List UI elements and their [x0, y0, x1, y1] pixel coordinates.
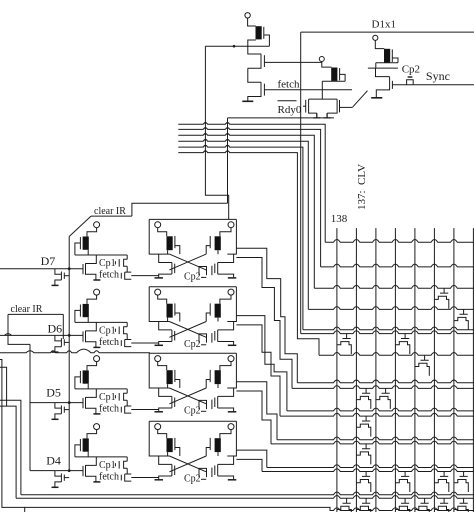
wire [158, 228, 167, 237]
power VCC circle chain3 [373, 35, 378, 40]
gate latch left [174, 438, 176, 450]
transistor Cp2 pass gate [211, 400, 213, 410]
svg-text:Cp1: Cp1 [99, 460, 116, 471]
ground latch left [155, 344, 164, 346]
wire cross X [169, 456, 206, 472]
wire dash [201, 478, 206, 480]
depletion load latch left [167, 438, 173, 452]
wire [159, 408, 172, 411]
wire [159, 476, 172, 479]
wire source [55, 414, 62, 419]
wire latch left side [149, 421, 169, 456]
power VCC circle latch right [228, 222, 234, 228]
wire [87, 430, 97, 439]
wire gate-source loop [264, 35, 270, 46]
transistor latch lower-left channel [171, 263, 173, 275]
wire decode row 2 [321, 264, 474, 267]
wire decode row 8 [297, 380, 474, 383]
wire bottom feed w2 [0, 406, 16, 498]
transistor decode Q3 [337, 334, 351, 355]
wire latch right side [218, 353, 236, 388]
pulldown transistor gate [63, 273, 65, 279]
wire source [55, 482, 62, 487]
wire source [86, 274, 96, 280]
wire bus line 6 [178, 151, 319, 355]
svg-text:fetch: fetch [99, 337, 119, 348]
pass transistor box Rdy0 top [309, 98, 338, 100]
transistor T1 channel [248, 54, 261, 69]
svg-text:D6: D6 [48, 321, 63, 335]
ground pulldown [52, 486, 59, 488]
gate bar right of Rdy0 pass [339, 100, 341, 112]
svg-text:Cp1: Cp1 [99, 325, 116, 336]
ground latch left [155, 411, 164, 413]
wire decode column 7 [453, 228, 455, 512]
transistor Cp2 pass channel [199, 267, 207, 276]
wire gate lead [64, 477, 69, 479]
transistor decode Q1 [434, 288, 448, 309]
wire source of load1 [248, 40, 261, 54]
wire decode row 12 [277, 437, 474, 440]
svg-text:Cp1: Cp1 [99, 392, 116, 403]
transistor decode Q4 [395, 334, 409, 355]
node D4 wire [30, 470, 83, 472]
wire [159, 274, 172, 277]
wire source [86, 476, 96, 482]
svg-text:fetch: fetch [99, 270, 119, 281]
depletion load latch right [215, 438, 221, 452]
depletion load latch right [215, 370, 221, 384]
transistor Sync channel [376, 77, 389, 98]
wire [126, 457, 128, 461]
wire fetch line [264, 89, 352, 91]
pass fetch gate [120, 407, 122, 413]
wire [375, 41, 384, 49]
wire D6 hop [5, 334, 12, 336]
power VCC circle latch left [155, 424, 161, 430]
switch diagonal [353, 91, 368, 107]
ground latch right [228, 411, 237, 413]
wire gate loop right [206, 380, 210, 389]
ground cell [93, 413, 100, 415]
wire gate loop [75, 243, 81, 255]
depletion load latch right [215, 304, 221, 318]
power VCC circle latch left [155, 222, 161, 228]
wire decode row 6 [301, 331, 474, 334]
wire source [55, 280, 62, 285]
pass Cp1 gate [118, 327, 120, 335]
junction [68, 401, 71, 404]
wire clearIR feed down [227, 118, 229, 203]
wire cross X [169, 322, 206, 338]
svg-text:D1x1: D1x1 [372, 19, 396, 31]
pulldown transistor channel [60, 405, 62, 414]
wire [159, 254, 172, 262]
transistor latch lower-right channel [217, 330, 219, 342]
driver transistor gate [82, 331, 84, 341]
wire drain [86, 255, 97, 264]
svg-text:Sync: Sync [426, 69, 450, 83]
gate latch right [209, 370, 211, 382]
depletion load latch left [167, 304, 173, 318]
wire diagonal to clear IR [69, 216, 91, 236]
wire bus line 2 [178, 128, 320, 267]
svg-text:fetch: fetch [99, 403, 119, 414]
wire [368, 63, 398, 68]
wire to latch [131, 409, 158, 411]
depletion load cell [83, 237, 89, 250]
wire decode column 5 [414, 228, 416, 512]
wire drain [86, 322, 97, 331]
pass Cp1 channel [124, 393, 128, 400]
gate latch left [174, 236, 176, 248]
transistor decode Q15 [356, 498, 370, 512]
transistor latch lower-right channel [217, 464, 219, 476]
wire [126, 322, 128, 326]
transistor decode Q8 [356, 416, 370, 437]
junction [68, 267, 71, 270]
wire latch output staircase 4 [236, 325, 280, 416]
driver transistor channel [85, 331, 87, 343]
svg-text:Cp2: Cp2 [184, 405, 201, 416]
wire [218, 408, 234, 411]
transistor latch lower-right gate [214, 398, 216, 408]
transistor decode Q19 [454, 498, 468, 512]
pass Cp1 channel [124, 461, 128, 468]
wire clear IR cell1 [91, 215, 132, 217]
pass Cp1 gate [118, 393, 120, 401]
power VCC circle chain1 [245, 13, 250, 18]
wire decode column 8 [472, 228, 474, 512]
gate of cell load [79, 439, 81, 451]
pulldown transistor drain [55, 403, 62, 409]
wire D1x1 feed down [300, 32, 302, 334]
wire gate loop [75, 310, 81, 322]
latch box top [149, 218, 236, 220]
svg-text:137: CLV: 137: CLV [356, 164, 368, 210]
wire [158, 362, 167, 371]
wire [218, 476, 234, 479]
gate latch left [174, 370, 176, 382]
svg-text:D7: D7 [41, 254, 56, 268]
driver transistor gate [82, 264, 84, 274]
overbar dash [408, 76, 413, 78]
svg-text:fetch: fetch [99, 471, 119, 482]
ground chain3 [371, 97, 382, 99]
wire decode column 1 [336, 228, 338, 512]
wire decode column 2 [355, 228, 357, 512]
depletion load latch left [167, 370, 173, 384]
wire [218, 322, 234, 330]
transistor T2 channel [248, 82, 261, 101]
wire to latch [131, 342, 158, 344]
transistor decode Q13 [356, 472, 370, 493]
pulldown transistor channel [60, 272, 62, 281]
transistor Cp2 pass gate [211, 468, 213, 478]
junction [68, 334, 71, 337]
wire decode row 16 [16, 496, 474, 499]
wire gate loop [75, 445, 81, 457]
wire latch output staircase 6 [236, 391, 271, 444]
depletion load cell [83, 438, 89, 451]
wire gate loop right [206, 313, 210, 322]
node D5 wire [30, 402, 83, 404]
pulldown transistor drain [55, 269, 62, 275]
transistor decode Q6 [356, 388, 370, 409]
wire [220, 430, 231, 439]
wire [126, 468, 128, 474]
wire [126, 334, 128, 340]
transistor latch lower-left gate [174, 466, 176, 476]
transistor decode Q10 [395, 472, 409, 493]
transistor Cp2 pass channel [199, 468, 207, 477]
svg-text:fetch: fetch [278, 79, 300, 91]
wire decode row 13 [271, 441, 474, 444]
wire [218, 388, 234, 396]
wire drain [86, 457, 97, 466]
pulldown transistor drain [55, 335, 62, 341]
wire source of load2 [322, 81, 345, 99]
wire bottom feed w3 [0, 400, 21, 495]
node D6 wire [0, 334, 83, 336]
wire gate loop left [175, 448, 180, 457]
transistor decode Q16 [395, 498, 409, 512]
wire bus line 5 [178, 145, 303, 329]
wire [126, 255, 128, 259]
wire bus line 3 [178, 134, 314, 289]
pulldown transistor drain [55, 471, 62, 477]
svg-text:clear IR: clear IR [11, 304, 43, 315]
wire [159, 342, 172, 345]
pass fetch gate [120, 475, 122, 481]
transistor decode Q18 [434, 498, 448, 512]
gate of cell load [79, 305, 81, 317]
junction [205, 127, 207, 129]
wire gate-source loop [340, 74, 346, 81]
wire [220, 228, 231, 237]
wire gate lead [64, 275, 69, 277]
power VCC circle chain2 [319, 57, 324, 62]
wire decode row 7 [319, 353, 474, 356]
wire clear IR cell2 [8, 314, 63, 344]
wire decode row 5 [303, 327, 474, 330]
label Rdy0 overline [278, 100, 297, 102]
wire gate loop left [175, 380, 180, 389]
svg-text:Cp2: Cp2 [184, 473, 201, 484]
gate latch right [209, 438, 211, 450]
wire T1 gate lead [264, 61, 321, 63]
wire decode row 3 [314, 285, 474, 288]
wire [87, 295, 97, 304]
svg-text:138: 138 [331, 213, 348, 225]
wire gate loop left [175, 246, 180, 255]
wire bus line 4 [178, 139, 308, 309]
clock tick [114, 395, 116, 398]
power VCC circle latch left [155, 289, 161, 295]
wire drain [86, 389, 97, 398]
wire latch right side [218, 219, 236, 254]
transistor latch lower-right gate [214, 264, 216, 274]
wire D feed vertical [68, 237, 70, 471]
latch box top [149, 352, 236, 354]
wire bus line 1 [178, 123, 325, 243]
transistor T2 gate [263, 84, 265, 96]
gate of load3 [391, 49, 393, 62]
wire gate-source loop [392, 58, 398, 63]
wire [376, 68, 390, 77]
svg-text:Cp2: Cp2 [184, 339, 201, 350]
transistor latch lower-left gate [174, 398, 176, 408]
transistor decode Q12 [454, 472, 468, 493]
transistor Cp2 pass channel [199, 400, 207, 409]
depletion load cell [83, 370, 89, 383]
pass transistor box right channel [327, 99, 337, 113]
driver transistor gate [82, 398, 84, 408]
ground rail Rdy0 [228, 117, 335, 119]
wire inverter output [75, 317, 127, 322]
transistor decode Q11 [434, 472, 448, 493]
transistor decode Q5 [415, 355, 429, 376]
wire latch output staircase 3 [236, 316, 287, 411]
wire [87, 228, 97, 237]
power VCC circle cell [94, 356, 100, 362]
pass Cp1 channel [124, 327, 128, 334]
wire decode row 10 [287, 408, 474, 411]
wire [220, 295, 231, 304]
transistor latch lower-left channel [171, 396, 173, 408]
wire cross X [169, 388, 206, 404]
depletion load latch left [167, 236, 173, 250]
wire latch left side [149, 287, 169, 322]
transistor decode Q2 [454, 309, 468, 330]
gate latch right [209, 303, 211, 315]
wire gate loop right [206, 246, 210, 255]
wire [158, 295, 167, 304]
ground latch right [228, 479, 237, 481]
power VCC circle latch right [228, 289, 234, 295]
gate bar left of Rdy0 pass [305, 100, 307, 113]
ground cell [93, 481, 100, 483]
power VCC circle cell [94, 424, 100, 430]
clock tick [114, 329, 116, 332]
depletion load Q_load3 [384, 49, 390, 63]
pulldown transistor channel [60, 473, 62, 482]
wire dash [201, 344, 206, 346]
wire inverter output [75, 384, 127, 389]
gate of cell load [79, 371, 81, 383]
wire clear IR step [132, 203, 228, 216]
wire dash [201, 410, 206, 412]
svg-text:D4: D4 [46, 453, 61, 467]
transistor T1 gate [263, 55, 265, 67]
wire Sync line [392, 84, 474, 86]
driver transistor gate [82, 466, 84, 476]
transistor decode Q9 [356, 444, 370, 465]
transistor decode Q7 [376, 388, 390, 409]
wire source [86, 408, 96, 414]
depletion load latch right [215, 236, 221, 250]
wire [126, 400, 128, 406]
wire latch output staircase 1 [236, 248, 297, 383]
wire [218, 254, 234, 262]
wire latch output staircase 8 [236, 459, 262, 471]
wire gate loop right [206, 448, 210, 457]
wire [218, 274, 234, 277]
pulldown transistor gate [63, 407, 65, 413]
wire decode row 1 [325, 240, 474, 243]
driver transistor channel [85, 465, 87, 477]
wire decode column 6 [433, 228, 435, 512]
wire decode column 3 [375, 228, 377, 512]
wire [322, 62, 332, 68]
gate of cell load [79, 237, 81, 249]
junction [233, 45, 236, 48]
ground pulldown [52, 418, 59, 420]
transistor latch lower-right channel [217, 263, 219, 275]
clock tick [114, 261, 116, 264]
wire [159, 322, 172, 330]
wire [87, 362, 97, 371]
node D1x1 wire [301, 31, 474, 33]
power VCC circle latch left [155, 356, 161, 362]
junction [205, 145, 207, 147]
pass fetch gate [120, 340, 122, 346]
transistor Sync gate [391, 81, 393, 89]
wire latch output staircase 5 [236, 382, 277, 440]
wire [158, 430, 167, 439]
svg-text:Cp1: Cp1 [99, 258, 116, 269]
wire to latch [131, 477, 158, 479]
ground latch right [228, 344, 237, 346]
gate of load1 [263, 27, 265, 39]
ground pulldown [52, 284, 59, 286]
svg-text:D5: D5 [46, 386, 61, 400]
pass fetch channel [125, 474, 132, 481]
junction [205, 122, 207, 124]
junction [68, 469, 71, 472]
wire fetchbar feed down [205, 46, 228, 219]
transistor decode Q17 [415, 498, 429, 512]
transistor latch lower-left channel [171, 464, 173, 476]
depletion load cell [83, 304, 89, 317]
wire decode column 4 [394, 228, 396, 512]
transistor Cp2 pass gate [211, 333, 213, 343]
wire decode row 14 [267, 465, 474, 468]
clock tick [114, 463, 116, 466]
ground right foot [324, 113, 331, 118]
wire latch output staircase 2 [236, 258, 292, 389]
wire [62, 314, 64, 339]
node fetchbar output wire [205, 45, 269, 47]
transistor latch lower-right channel [217, 396, 219, 408]
wire Rdy0 gate lead [303, 105, 306, 107]
wire [220, 362, 231, 371]
wire source [55, 347, 62, 352]
wire D5-D4 left vertical [29, 344, 31, 470]
ground latch left [155, 277, 164, 279]
wire decode row 17 [25, 507, 474, 510]
ground pulldown [52, 351, 59, 353]
pulldown transistor gate [63, 339, 65, 345]
depletion load Q_load2 [331, 68, 337, 81]
wire gate lead [64, 341, 69, 343]
ground latch left [155, 479, 164, 481]
wire bottom feed stub [0, 367, 7, 406]
ground cell [93, 279, 100, 281]
wire source [86, 342, 96, 348]
transistor Cp2 pass gate [211, 266, 213, 276]
junction [205, 133, 207, 135]
